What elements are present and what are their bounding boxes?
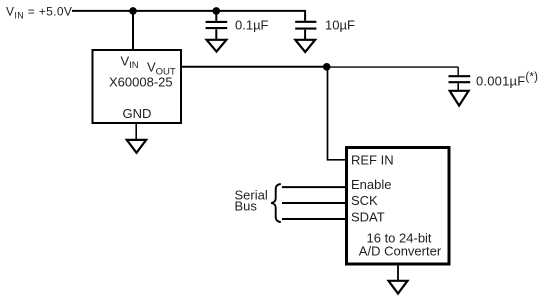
capacitor C1 0.1uF bbox=[206, 11, 228, 40]
A/D converter U2 bbox=[347, 148, 450, 265]
svg-text:GND: GND bbox=[123, 106, 152, 121]
svg-text:Enable: Enable bbox=[351, 177, 391, 192]
wire GND pin bbox=[135, 124, 137, 140]
junction at VIN pin bbox=[129, 7, 137, 15]
svg-text:Bus: Bus bbox=[235, 199, 258, 214]
wire Enable bbox=[282, 186, 346, 188]
wire VIN top rail bbox=[72, 10, 306, 12]
serial bus brace bbox=[271, 184, 281, 222]
wire REF IN bbox=[328, 67, 347, 160]
wire VOUT bbox=[181, 66, 327, 68]
ground of C2 bbox=[295, 40, 315, 52]
svg-text:10µF: 10µF bbox=[325, 18, 355, 33]
junction at C1 bbox=[213, 7, 221, 15]
svg-text:SCK: SCK bbox=[351, 193, 378, 208]
capacitor C3 0.001uF bbox=[449, 67, 471, 90]
svg-text:REF IN: REF IN bbox=[351, 152, 394, 167]
wire VOUT to C3 bbox=[327, 66, 458, 68]
wire SCK bbox=[282, 202, 346, 204]
voltage reference U1 X60008-25 bbox=[93, 50, 182, 123]
ground of C3 bbox=[450, 91, 469, 106]
svg-text:A/D Converter: A/D Converter bbox=[359, 243, 442, 258]
ground of C1 bbox=[207, 40, 227, 52]
svg-text:SDAT: SDAT bbox=[351, 210, 385, 225]
wire A/D ground pin bbox=[397, 264, 399, 281]
junction at REF IN branch bbox=[323, 63, 331, 71]
ground of U1 bbox=[127, 140, 146, 153]
wire VIN rail to regulator VIN pin bbox=[132, 11, 134, 50]
ground of U2 bbox=[389, 281, 408, 294]
svg-text:X60008-25: X60008-25 bbox=[109, 75, 173, 90]
svg-text:0.1µF: 0.1µF bbox=[235, 17, 269, 32]
wire SDAT bbox=[282, 218, 346, 220]
capacitor C2 10uF bbox=[295, 10, 316, 40]
